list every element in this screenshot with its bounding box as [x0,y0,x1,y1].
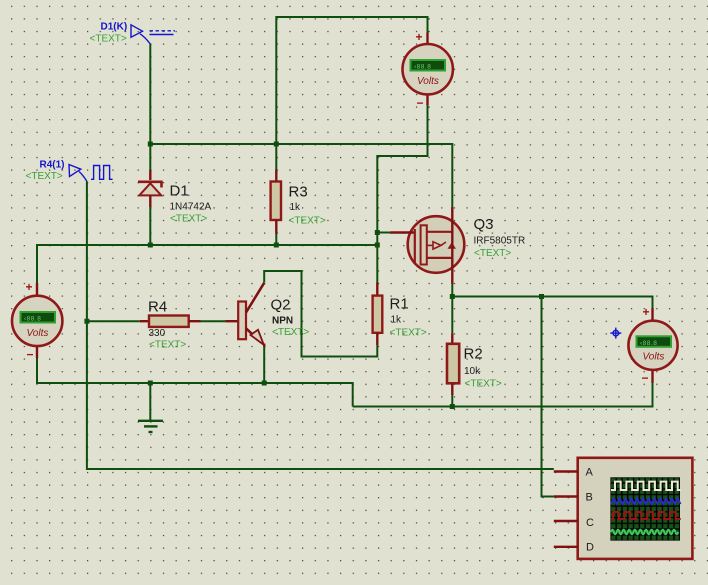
svg-text:+: + [416,30,423,44]
trace A square wave [611,482,681,490]
wire Q3 source column to R2 [451,284,453,333]
voltmeter VM1 (top) [403,30,453,110]
transistor Q3 IRF5805TR (P-MOSFET) [391,207,526,284]
svg-text:D: D [586,542,594,554]
wire top net: R3 top to voltmeter VM1 plus [276,17,427,170]
wire Q3 gate stub from column [377,232,390,234]
wire VM1 minus down-left to Q3 gate column [377,105,427,283]
svg-text:‹88.8: ‹88.8 [24,316,41,323]
svg-text:+: + [643,305,650,319]
svg-text:330: 330 [149,328,166,339]
svg-text:−: − [27,348,34,362]
svg-text:R4(1): R4(1) [40,160,65,171]
voltage probe R4(1) [69,165,113,182]
svg-text:D1(K): D1(K) [101,22,128,33]
voltage probe D1(K) [131,25,175,44]
wire Q2 emitter down [263,347,265,384]
wire D1 anode to bottom bus [149,207,151,245]
trace D sine wave [611,530,678,535]
transistor Q2 NPN [226,283,310,347]
pin B [554,495,578,497]
oscilloscope [554,458,693,559]
svg-text:R3: R3 [289,184,308,201]
svg-text:Volts: Volts [643,352,665,363]
wire R2 bottom to bus [451,395,453,407]
svg-text:‹88.8: ‹88.8 [414,64,431,71]
svg-text:10k: 10k [464,366,481,377]
pin C [554,520,578,522]
svg-text:Volts: Volts [27,328,49,339]
svg-text:R1: R1 [390,296,409,313]
wire R4 right to Q2 base [201,320,226,322]
svg-text:1N4742A: 1N4742A [170,202,212,213]
svg-text:IRF5805TR: IRF5805TR [474,236,526,247]
wire R4 left segment [87,320,140,322]
voltmeter VM3 (right) [628,305,677,385]
svg-text:<TEXT>: <TEXT> [289,216,326,227]
svg-text:<TEXT>: <TEXT> [272,327,309,338]
trace C square wave [611,512,681,519]
svg-text:<TEXT>: <TEXT> [474,248,511,259]
svg-text:A: A [586,467,594,479]
svg-text:1k: 1k [391,315,403,326]
svg-text:<TEXT>: <TEXT> [465,379,502,390]
svg-text:NPN: NPN [272,315,293,326]
svg-text:C: C [586,517,594,529]
svg-text:−: − [642,371,649,385]
diode D1 zener 1N4742A [138,170,212,225]
svg-text:1k: 1k [290,202,302,213]
svg-text:Q2: Q2 [271,297,291,314]
wire emitter bus y=383 from VM2 minus [37,358,353,407]
wire Q2 collector to R1 bottom [264,271,377,357]
svg-text:<TEXT>: <TEXT> [149,340,186,351]
svg-text:+: + [26,280,33,294]
trace B wave [611,499,681,505]
voltmeter VM2 (left) [12,280,62,362]
svg-text:Volts: Volts [417,76,439,87]
wire bottom bus y=245 (VM2 plus to R1 column) [37,245,377,283]
wire source net across to VM3 plus [452,297,652,309]
marker crosshair [610,328,621,339]
resistor R1 1k [373,283,427,346]
svg-text:<TEXT>: <TEXT> [170,214,207,225]
wire horizontal net y=144 D1/R3 to Q3 drain [150,144,452,207]
wire bus y=406.5 to VM3 minus [353,383,653,407]
svg-text:B: B [586,492,593,504]
pin A [554,470,578,472]
svg-text:<TEXT>: <TEXT> [90,34,127,45]
scope screen [610,477,680,540]
wire ground stem top [149,383,151,420]
wire probe D1(K) drop to D1 anode-bar node [149,44,151,170]
resistor R3 1k [271,170,326,246]
svg-text:<TEXT>: <TEXT> [390,327,427,338]
svg-text:‹88.8: ‹88.8 [640,340,657,347]
svg-text:R4: R4 [148,298,167,315]
svg-text:<TEXT>: <TEXT> [26,171,63,182]
svg-text:−: − [417,96,424,110]
pin D [554,546,578,548]
wire B channel drop to scope [542,297,554,497]
resistor R2 10k [447,333,502,395]
svg-text:D1: D1 [170,183,189,200]
svg-text:R2: R2 [464,346,483,363]
wire R4(1) probe column down and across to scope A [87,181,554,469]
svg-text:Q3: Q3 [474,216,494,233]
ground [138,421,163,432]
resistor R4 330 [140,298,201,350]
